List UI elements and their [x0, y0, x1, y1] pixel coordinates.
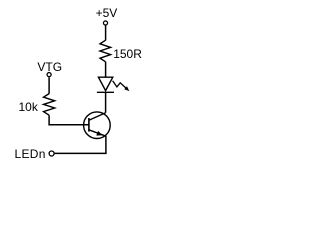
terminal LEDn — [49, 151, 54, 156]
svg-text:150R: 150R — [113, 47, 142, 61]
wire VTG terminal to R2 — [48, 77, 50, 94]
wire R2 to Q1 base — [49, 115, 89, 125]
wire R1 to LED anode — [105, 62, 107, 77]
wire +5V terminal to R1 — [105, 25, 107, 40]
resistor R1 150R — [100, 40, 111, 62]
LED light emission arrow — [113, 81, 130, 91]
terminal +5V — [103, 21, 107, 25]
wire LED cathode to Q1 collector — [105, 92, 107, 112]
terminal VTG — [47, 73, 51, 77]
LED D1 — [97, 77, 114, 92]
transistor Q1 NPN — [84, 112, 111, 139]
svg-text:LEDn: LEDn — [15, 147, 46, 161]
resistor R2 10k — [44, 94, 55, 116]
wire Q1 emitter to LEDn terminal — [54, 136, 106, 154]
svg-text:10k: 10k — [19, 100, 39, 114]
svg-text:+5V: +5V — [96, 6, 118, 20]
svg-text:VTG: VTG — [37, 60, 62, 74]
